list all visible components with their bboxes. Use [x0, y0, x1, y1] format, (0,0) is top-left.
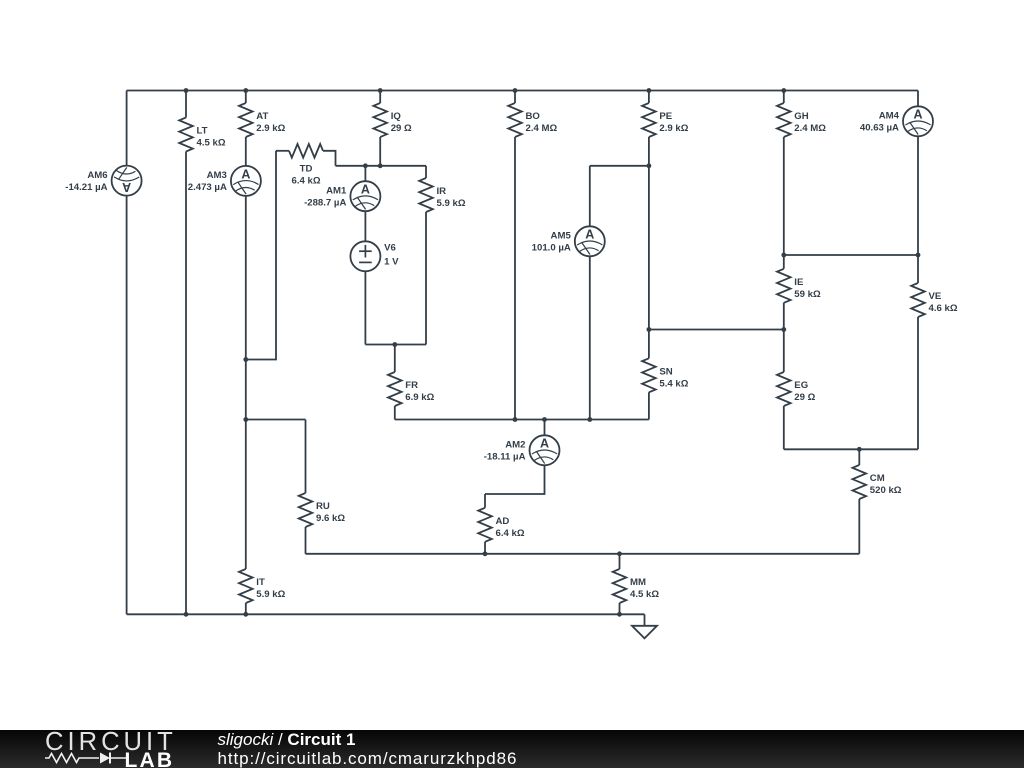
wire AM3-RU branch	[246, 419, 306, 421]
wire CM bottom lead	[858, 499, 860, 554]
ground	[632, 614, 657, 638]
wire LT bottom lead	[185, 152, 187, 615]
svg-text:AM4: AM4	[879, 111, 900, 122]
wire TD right lead	[323, 151, 336, 166]
node junction 6	[781, 88, 786, 93]
wire PE to SN	[648, 137, 650, 358]
resistor TD	[289, 144, 323, 187]
svg-text:AM1: AM1	[326, 186, 347, 197]
wire PE top lead	[648, 91, 650, 104]
svg-text:V6: V6	[384, 242, 396, 253]
svg-text:AM2: AM2	[505, 440, 525, 451]
node junction 24	[243, 612, 248, 617]
wire GH to IE	[783, 137, 785, 269]
wire RU bottom lead	[305, 527, 307, 554]
svg-text:IQ: IQ	[391, 111, 402, 122]
ammeter AM1	[304, 181, 380, 211]
node junction 13	[781, 327, 786, 332]
svg-text:VE: VE	[929, 291, 942, 302]
svg-text:4.5 kΩ: 4.5 kΩ	[630, 589, 659, 600]
resistor PE	[642, 103, 689, 137]
node junction 21	[483, 551, 488, 556]
resistor CM	[853, 465, 902, 499]
ammeter AM4	[860, 106, 933, 136]
svg-text:IE: IE	[794, 277, 804, 288]
resistor BO	[508, 103, 557, 137]
ammeter AM2	[484, 435, 560, 465]
svg-text:A: A	[585, 228, 594, 242]
svg-text:A: A	[540, 437, 549, 451]
wire AM5 branch	[590, 165, 649, 167]
node junction 17	[513, 417, 518, 422]
wire MM bottom lead	[619, 603, 621, 614]
wire AM1 to V6	[364, 211, 366, 241]
wire AM3 to IT	[245, 196, 247, 569]
wire CM top lead	[858, 449, 860, 465]
resistor LT	[179, 118, 226, 152]
svg-text:6.4 kΩ: 6.4 kΩ	[496, 528, 525, 539]
wire TD left lead	[276, 150, 289, 152]
node junction 9	[647, 163, 652, 168]
wire AD bottom lead	[484, 542, 486, 554]
resistor VE	[911, 283, 958, 317]
node junction 25	[617, 612, 622, 617]
resistor AT	[239, 103, 286, 137]
node junction 10	[781, 253, 786, 258]
svg-text:2.4 MΩ: 2.4 MΩ	[526, 123, 558, 134]
node junction 2	[243, 88, 248, 93]
svg-text:PE: PE	[659, 111, 672, 122]
wire AT to AM3	[245, 137, 247, 166]
node junction 5	[647, 88, 652, 93]
wire EG bottom lead	[783, 406, 785, 449]
node junction 18	[542, 417, 547, 422]
node junction 16	[243, 417, 248, 422]
wire low row RU-CM	[306, 553, 860, 555]
svg-text:RU: RU	[316, 501, 330, 512]
ammeter AM6	[65, 166, 141, 196]
wire AM4 top lead	[917, 91, 919, 107]
wire AM2 top lead	[544, 420, 546, 436]
svg-text:5.4 kΩ: 5.4 kΩ	[659, 378, 688, 389]
svg-text:AM6: AM6	[87, 170, 107, 181]
svg-text:520 kΩ: 520 kΩ	[870, 485, 902, 496]
wire IQ bottom lead	[379, 137, 381, 166]
wire AM5 bottom lead	[589, 256, 591, 419]
resistor FR	[388, 372, 435, 406]
resistor IR	[419, 178, 466, 212]
wire FR bottom lead	[394, 406, 396, 420]
url line	[218, 749, 518, 769]
svg-text:2.9 kΩ: 2.9 kΩ	[256, 123, 285, 134]
svg-text:6.9 kΩ: 6.9 kΩ	[405, 392, 434, 403]
resistor MM	[613, 569, 660, 603]
svg-text:2.4 MΩ: 2.4 MΩ	[794, 123, 826, 134]
ammeter AM3	[188, 166, 261, 196]
wire VE bottom lead	[917, 317, 919, 449]
svg-text:CM: CM	[870, 473, 885, 484]
wire TD left leg	[246, 151, 276, 360]
wire IQ top lead	[379, 91, 381, 104]
wire AT top lead	[245, 91, 247, 104]
wire MM top lead	[619, 554, 621, 569]
wire bottom rail	[127, 613, 645, 615]
svg-text:6.4 kΩ: 6.4 kΩ	[291, 176, 320, 187]
resistor EG	[777, 372, 816, 406]
wire AM6 top lead	[126, 91, 128, 166]
svg-text:-18.11 µA: -18.11 µA	[484, 452, 526, 463]
wire SN-IE row	[649, 329, 784, 331]
node junction 22	[617, 551, 622, 556]
svg-text:A: A	[913, 108, 922, 122]
resistor RU	[299, 493, 346, 527]
title line	[218, 730, 356, 750]
svg-text:TD: TD	[300, 164, 313, 175]
wire LT top lead	[185, 91, 187, 118]
wire node row AM1/IQ/IR	[336, 165, 427, 167]
svg-text:LT: LT	[197, 126, 208, 137]
wire GH top lead	[783, 91, 785, 104]
wire GH-AM4 row	[784, 254, 918, 256]
svg-text:A: A	[122, 180, 131, 194]
node junction 3	[378, 88, 383, 93]
node junction 19	[587, 417, 592, 422]
voltage source V6	[350, 241, 399, 271]
node junction 7	[363, 163, 368, 168]
logo resistor-diode doodle	[45, 750, 135, 766]
svg-text:FR: FR	[405, 380, 418, 391]
wire BO top lead	[514, 91, 516, 104]
node junction 1	[184, 88, 189, 93]
node junction 15	[243, 357, 248, 362]
svg-text:IR: IR	[437, 186, 447, 197]
node junction 20	[857, 447, 862, 452]
svg-text:40.63 µA: 40.63 µA	[860, 123, 899, 134]
svg-text:AD: AD	[496, 516, 510, 527]
wire V6 bottom lead	[364, 271, 366, 344]
resistor SN	[642, 358, 689, 392]
resistor IQ	[373, 103, 412, 137]
svg-text:4.5 kΩ: 4.5 kΩ	[197, 138, 226, 149]
resistor AD	[478, 508, 525, 542]
wire BO bottom lead	[514, 137, 516, 420]
resistor GH	[777, 103, 826, 137]
resistor IT	[239, 569, 286, 603]
svg-text:GH: GH	[794, 111, 808, 122]
wire EG-VE row	[784, 448, 918, 450]
wire AM6 bottom lead	[126, 196, 128, 615]
wire IR top lead	[425, 166, 427, 178]
svg-text:29 Ω: 29 Ω	[391, 123, 412, 134]
wire AD top lead	[484, 494, 486, 508]
wire V6-IR bottom row	[365, 344, 426, 346]
wire SN bottom lead	[648, 392, 650, 419]
node junction 14	[392, 342, 397, 347]
node junction 23	[184, 612, 189, 617]
wire AM5 top lead	[589, 166, 591, 227]
wire AM2 bottom jog	[485, 465, 545, 494]
svg-text:1 V: 1 V	[384, 257, 399, 268]
svg-text:5.9 kΩ: 5.9 kΩ	[256, 589, 285, 600]
svg-text:9.6 kΩ: 9.6 kΩ	[316, 513, 345, 524]
resistor IE	[777, 269, 821, 303]
svg-text:BO: BO	[526, 111, 541, 122]
svg-text:101.0 µA: 101.0 µA	[532, 243, 571, 254]
svg-text:2.9 kΩ: 2.9 kΩ	[659, 123, 688, 134]
CircuitLab logo text	[45, 728, 177, 757]
wire FR top lead	[394, 345, 396, 373]
svg-text:5.9 kΩ: 5.9 kΩ	[437, 198, 466, 209]
wire top rail	[127, 90, 918, 92]
ammeter AM5	[532, 226, 605, 256]
node junction 12	[647, 327, 652, 332]
svg-text:A: A	[361, 183, 370, 197]
footer bar	[0, 730, 1024, 769]
wire AM4 to VE	[917, 136, 919, 283]
node junction 8	[378, 163, 383, 168]
svg-text:AM3: AM3	[207, 170, 227, 181]
svg-text:-14.21 µA: -14.21 µA	[65, 182, 107, 193]
node junction 4	[513, 88, 518, 93]
svg-text:-288.7 µA: -288.7 µA	[304, 198, 346, 209]
svg-text:IT: IT	[256, 577, 265, 588]
svg-text:EG: EG	[794, 380, 808, 391]
svg-text:AM5: AM5	[551, 231, 572, 242]
wire IE to EG	[783, 303, 785, 372]
CircuitLab logo LAB	[125, 749, 175, 773]
svg-text:59 kΩ: 59 kΩ	[794, 289, 821, 300]
wire AM1 top lead	[364, 166, 366, 181]
wire RU top lead	[305, 420, 307, 494]
svg-text:MM: MM	[630, 577, 646, 588]
wire IR bottom lead	[425, 212, 427, 345]
node junction 11	[916, 253, 921, 258]
svg-text:A: A	[241, 167, 250, 181]
wire IT bottom lead	[245, 603, 247, 614]
svg-text:29 Ω: 29 Ω	[794, 392, 815, 403]
svg-text:2.473 µA: 2.473 µA	[188, 182, 227, 193]
svg-text:AT: AT	[256, 111, 268, 122]
svg-text:4.6 kΩ: 4.6 kΩ	[929, 303, 958, 314]
wire mid row FR-SN	[395, 419, 649, 421]
svg-text:SN: SN	[659, 366, 672, 377]
